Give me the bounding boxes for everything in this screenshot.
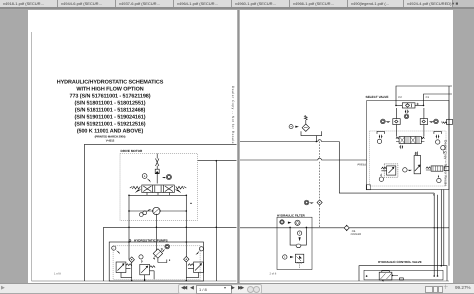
filter bypass check xyxy=(295,220,300,225)
control valve spool xyxy=(379,272,392,280)
item tag 24 xyxy=(166,174,171,179)
vertical solenoid valve xyxy=(414,156,421,174)
bottom separator line xyxy=(0,283,474,284)
svg-text:(S/N 518111001 - 518112468): (S/N 518111001 - 518112468) xyxy=(75,107,146,113)
loop sides xyxy=(129,195,186,211)
item tag 11 xyxy=(429,121,434,122)
pump suction stubs xyxy=(158,258,167,262)
loop rail upper xyxy=(129,194,186,196)
control valve outer enclosure xyxy=(359,266,447,281)
left pilot spring xyxy=(130,186,141,189)
item tag 29 xyxy=(304,200,309,205)
relief valve mid xyxy=(140,264,150,274)
stray dot in pumps xyxy=(169,260,170,261)
orifice X symbol xyxy=(156,154,159,167)
svg-text:V-4512: V-4512 xyxy=(106,139,115,143)
wire: rail to fold at y160.7 xyxy=(198,160,237,162)
svg-text:Dealer Copy -- Not for Resale: Dealer Copy -- Not for Resale xyxy=(444,140,448,186)
svg-text:DRIVE MOTOR: DRIVE MOTOR xyxy=(121,149,144,153)
drain dashed drop x319.6 xyxy=(319,142,321,228)
wire: return drop x103.5 xyxy=(103,227,105,281)
shuttle valve top xyxy=(402,103,415,108)
pumps inner dashed enclosure xyxy=(113,246,200,280)
right sheet bottom border xyxy=(240,280,449,282)
small port box on bottom xyxy=(400,278,404,280)
arrow up to shuttle xyxy=(405,109,409,114)
check diamond left xyxy=(129,257,134,263)
item tag 16 xyxy=(437,178,441,182)
item tag 4b xyxy=(199,247,203,251)
drops to control valve xyxy=(434,190,444,277)
drive motor directional valve xyxy=(142,185,175,193)
stray junction mark xyxy=(190,203,191,204)
relief at right edge xyxy=(441,122,447,124)
spool springs xyxy=(396,137,424,141)
filter loop wires xyxy=(290,227,306,245)
svg-text:2 of 8: 2 of 8 xyxy=(270,273,277,276)
case drain tag 3 xyxy=(289,125,293,129)
item tag 28 xyxy=(280,220,284,224)
charge pump P1 (diamond) xyxy=(153,249,162,258)
item tag 4 xyxy=(142,174,147,179)
tank bracket left xyxy=(377,131,384,134)
tab bar xyxy=(0,0,474,7)
pilot valve right xyxy=(420,119,427,125)
right pilot spring xyxy=(176,186,187,189)
control valve inner enclosure xyxy=(364,270,443,280)
drain bracket to rail A xyxy=(301,131,322,141)
check diamond right xyxy=(184,256,189,262)
item tag 9 xyxy=(381,119,386,124)
svg-text:(S/N 519211001 - 519212516): (S/N 519211001 - 519212516) xyxy=(74,121,145,127)
relief valve right xyxy=(194,262,204,273)
drive motor enclosure (dashed) xyxy=(120,154,198,221)
filter element ellipse xyxy=(296,244,301,248)
item tag 14 xyxy=(403,168,407,172)
svg-text:C2: C2 xyxy=(398,96,402,99)
loop rail lower xyxy=(129,210,186,212)
hatched valve right xyxy=(426,167,431,170)
bottom status strip xyxy=(0,284,474,293)
svg-text:SELECT VALVE: SELECT VALVE xyxy=(366,95,389,99)
top rail right sheet xyxy=(396,86,452,266)
frame wire: top rail left sheet xyxy=(84,144,236,281)
pilot valve left xyxy=(393,119,400,125)
spring atop diamond xyxy=(304,116,307,125)
svg-text:C1: C1 xyxy=(426,96,430,99)
wire: rail A from fold xyxy=(240,141,339,143)
nav HUD toolbar xyxy=(178,284,262,294)
loop drops to bottom rail xyxy=(132,278,187,281)
select valve enclosure xyxy=(367,101,449,190)
x junction mark xyxy=(433,194,435,196)
OIL COOLER diamond xyxy=(344,225,349,230)
left sheet inner border xyxy=(31,32,33,281)
arrow under spool xyxy=(400,145,404,150)
pressure reducing block xyxy=(381,167,386,171)
svg-text:WITH HIGH FLOW OPTION: WITH HIGH FLOW OPTION xyxy=(76,86,143,92)
item tag 2 pair xyxy=(139,213,143,217)
item tag 6 xyxy=(139,255,143,259)
pumps enclosure xyxy=(109,242,203,281)
tank stub at select box corner xyxy=(366,185,370,190)
check valve under orifice xyxy=(155,169,159,173)
svg-text:PRESS: PRESS xyxy=(358,163,367,166)
wire: press line xyxy=(240,159,367,161)
svg-text:773 (S/N 517611001 - 517621198: 773 (S/N 517611001 - 517621198) xyxy=(70,93,151,99)
drop wires to pumps xyxy=(129,210,186,259)
main spool valve xyxy=(399,137,421,144)
relief valve left xyxy=(116,262,126,273)
node at 216.3,227.3 xyxy=(216,227,218,229)
motor M1 circle xyxy=(153,207,160,214)
item tag 7 xyxy=(377,139,381,143)
bottom-right page layout icons xyxy=(425,286,433,294)
item tag 10 xyxy=(165,244,170,249)
item tag 8 xyxy=(404,114,409,119)
bottom-left faint icon xyxy=(1,286,7,291)
item tag 12 xyxy=(436,140,440,144)
fold line between sheets xyxy=(237,10,240,283)
svg-text:(S/N 519011001 - 519024161): (S/N 519011001 - 519024161) xyxy=(74,114,145,120)
filter drain valve xyxy=(295,254,303,263)
svg-text:(500 K 11001 AND ABOVE): (500 K 11001 AND ABOVE) xyxy=(77,128,144,134)
item tag 1b xyxy=(283,255,287,259)
case drain relief diamond xyxy=(302,124,309,131)
sheet bottom border xyxy=(32,280,237,282)
zoom percent xyxy=(455,285,474,291)
item tag 15 xyxy=(379,177,383,181)
tank bracket right xyxy=(434,131,441,134)
svg-text:1 of 8: 1 of 8 xyxy=(54,273,61,276)
svg-text:(S/N 518011001 - 518012551): (S/N 518011001 - 518012551) xyxy=(74,100,145,106)
item tag 2 xyxy=(297,231,301,235)
node at 216.3,160.7 xyxy=(216,160,218,162)
wire: vertical drop x216.3 xyxy=(215,161,217,281)
item tag 1 xyxy=(112,246,116,250)
crossover hop on press line xyxy=(318,158,322,160)
select valve inner dashed enclosure xyxy=(370,131,446,186)
svg-text:Dealer Copy -- Not for Resale: Dealer Copy -- Not for Resale xyxy=(231,86,235,144)
return rail y227.8 xyxy=(240,227,449,229)
C1 wire xyxy=(424,94,453,105)
wire: rail A step down xyxy=(339,142,434,194)
svg-text:COOLER: COOLER xyxy=(351,233,362,236)
svg-text:4: 4 xyxy=(144,175,146,178)
valve tails xyxy=(147,193,170,196)
drain check diamond 2 xyxy=(317,200,322,205)
title block xyxy=(57,79,164,142)
filter enclosure xyxy=(277,217,312,269)
item tag 13 xyxy=(441,146,445,150)
wire: return rail y227.3 xyxy=(104,226,237,228)
tab bar bottom dark line xyxy=(0,7,474,9)
svg-text:HYDRAULIC CONTROL VALVE: HYDRAULIC CONTROL VALVE xyxy=(378,260,422,264)
svg-text:HYDRAULIC/HYDROSTATIC SCHEMATI: HYDRAULIC/HYDROSTATIC SCHEMATICS xyxy=(57,79,164,85)
